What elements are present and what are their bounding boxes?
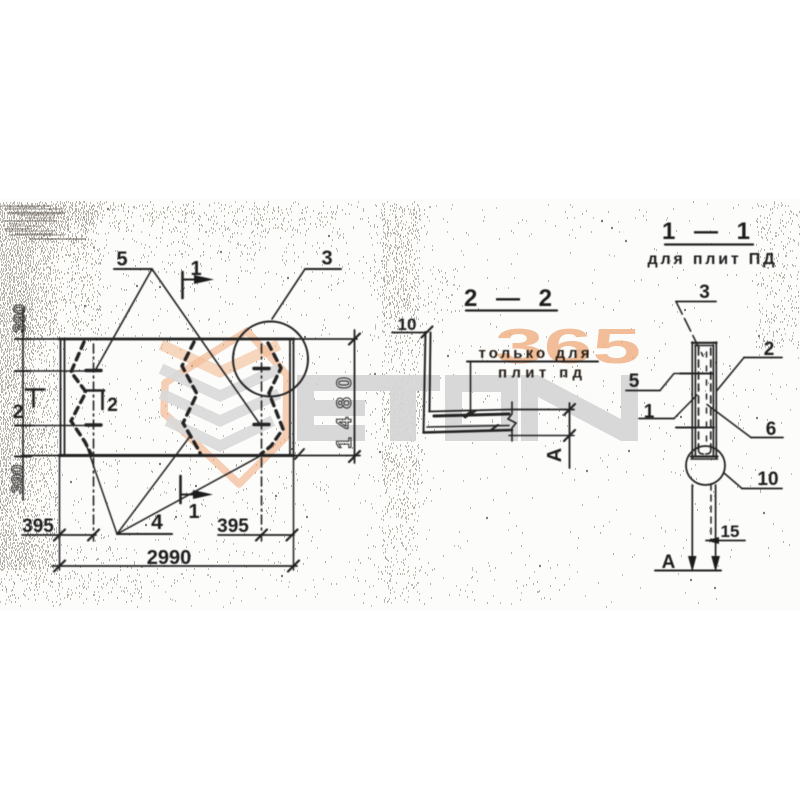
big gray letters E T O N — [297, 375, 638, 441]
inner dashed strands — [698, 348, 700, 449]
dimension 1480 — [354, 330, 356, 463]
crossing line lower — [676, 427, 714, 429]
svg-text:1: 1 — [188, 501, 199, 523]
orange hexagon logo outline — [164, 331, 287, 484]
svg-text:A: A — [662, 552, 676, 573]
inner ribbon chevrons — [166, 347, 274, 446]
svg-text:2: 2 — [107, 395, 118, 416]
left strand dash-dot line — [93, 344, 95, 541]
svg-text:10: 10 — [398, 315, 417, 334]
svg-text:3: 3 — [699, 282, 710, 303]
watermark — [164, 320, 641, 484]
svg-text:395: 395 — [22, 516, 54, 537]
mesh tick marks — [464, 412, 498, 431]
svg-text:5: 5 — [116, 249, 127, 271]
left dimension line 390/390 — [22, 308, 24, 500]
right zigzag mesh (dashed) — [261, 343, 283, 454]
svg-text:10: 10 — [757, 469, 778, 490]
crossing line upper (leader 5) — [680, 373, 713, 375]
left zigzag mesh (dashed) — [71, 342, 91, 454]
svg-text:для плит ПД: для плит ПД — [648, 251, 776, 268]
slab outline bottom edge — [22, 455, 59, 457]
rib (upstand) of slab — [424, 332, 426, 433]
strand row extension lines — [23, 371, 87, 426]
middle zigzag mesh (dashed) — [182, 342, 201, 455]
svg-text:390: 390 — [8, 465, 27, 493]
svg-text:395: 395 — [217, 516, 249, 537]
bottom reference line A — [655, 570, 721, 572]
svg-text:15: 15 — [721, 522, 740, 541]
svg-text:5: 5 — [629, 371, 640, 392]
slab column outline — [692, 342, 695, 458]
svg-text:2: 2 — [13, 402, 24, 423]
dim A — [569, 403, 571, 468]
break line right end — [508, 402, 516, 441]
svg-text:390: 390 — [10, 304, 29, 332]
extension verticals to bottom dims — [59, 457, 61, 570]
strand cross marks — [86, 369, 101, 372]
slab outline top edge — [22, 338, 59, 340]
hanger legs below — [691, 485, 693, 568]
detail circle 10 — [686, 446, 725, 485]
svg-text:1 — 1: 1 — 1 — [662, 218, 756, 245]
slab plate — [429, 410, 574, 412]
bottom extension line — [509, 435, 574, 437]
scan texture band — [0, 202, 800, 607]
svg-text:A: A — [544, 448, 566, 462]
slab right edge double line — [290, 339, 294, 456]
svg-text:2 — 2: 2 — 2 — [464, 285, 558, 312]
slab left edge double line — [61, 339, 65, 456]
corner tick bottom-right of plan — [295, 449, 304, 459]
svg-text:3: 3 — [321, 248, 332, 270]
right strand dash-dot line — [261, 344, 263, 541]
note leader — [470, 362, 472, 415]
